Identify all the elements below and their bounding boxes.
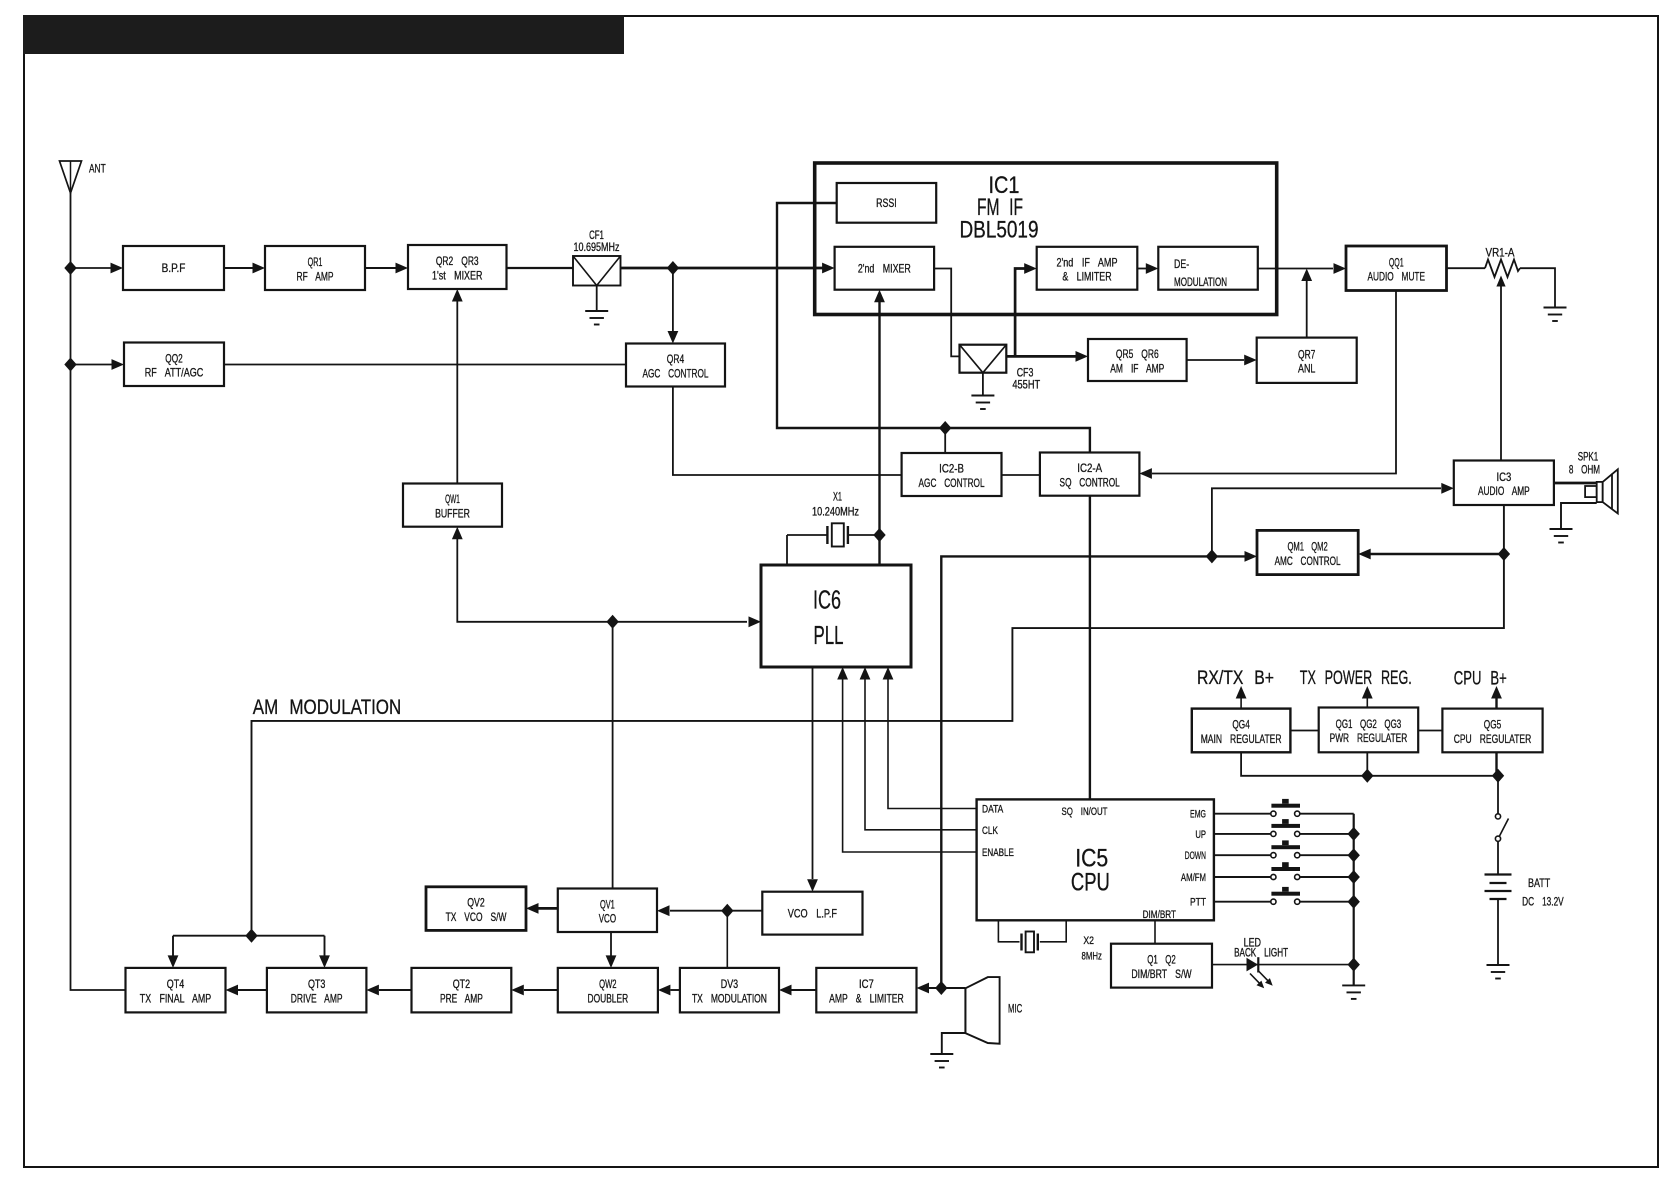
svg-text:DOWN: DOWN <box>1185 850 1206 862</box>
svg-text:DIM/BRT: DIM/BRT <box>1143 909 1177 921</box>
svg-text:QG5: QG5 <box>1484 717 1502 731</box>
svg-text:TX FINAL AMP: TX FINAL AMP <box>140 991 211 1005</box>
svg-text:2'nd IF AMP: 2'nd IF AMP <box>1057 255 1118 269</box>
svg-text:PTT: PTT <box>1190 897 1206 909</box>
svg-text:SQ IN/OUT: SQ IN/OUT <box>1061 806 1107 818</box>
svg-text:TX MODULATION: TX MODULATION <box>692 991 767 1005</box>
svg-text:DRIVE AMP: DRIVE AMP <box>291 991 343 1005</box>
svg-text:RF ATT/AGC: RF ATT/AGC <box>145 366 204 380</box>
svg-text:VCO: VCO <box>599 912 616 926</box>
svg-text:AM IF AMP: AM IF AMP <box>1110 361 1164 375</box>
svg-text:TX POWER REG.: TX POWER REG. <box>1300 667 1412 689</box>
svg-text:QT3: QT3 <box>308 977 326 991</box>
svg-text:MODULATION: MODULATION <box>1174 277 1227 289</box>
svg-text:QV2: QV2 <box>467 896 485 910</box>
svg-text:QQ2: QQ2 <box>165 351 183 365</box>
svg-text:MIC: MIC <box>1008 1003 1022 1015</box>
svg-text:DV3: DV3 <box>721 977 739 991</box>
svg-text:IC6: IC6 <box>813 585 841 615</box>
svg-text:Q1 Q2: Q1 Q2 <box>1147 953 1176 967</box>
svg-text:MAIN REGULATER: MAIN REGULATER <box>1201 732 1282 746</box>
svg-text:IC2-A: IC2-A <box>1077 461 1102 475</box>
svg-text:X2: X2 <box>1083 935 1094 947</box>
svg-text:QW1: QW1 <box>445 492 460 506</box>
svg-text:PLL: PLL <box>814 620 844 650</box>
svg-text:ANL: ANL <box>1298 362 1316 376</box>
svg-text:1'st MIXER: 1'st MIXER <box>432 268 483 282</box>
svg-text:AM/FM: AM/FM <box>1181 872 1206 884</box>
svg-text:RSSI: RSSI <box>876 196 897 210</box>
svg-text:BACK LIGHT: BACK LIGHT <box>1234 948 1288 960</box>
svg-text:UP: UP <box>1195 829 1206 841</box>
svg-text:IC3: IC3 <box>1496 470 1511 484</box>
svg-text:ENABLE: ENABLE <box>982 847 1014 859</box>
svg-text:DC 13.2V: DC 13.2V <box>1522 897 1564 909</box>
svg-text:RX/TX B+: RX/TX B+ <box>1197 667 1274 689</box>
svg-text:QW2: QW2 <box>599 977 617 991</box>
svg-text:8MHz: 8MHz <box>1082 950 1102 962</box>
svg-text:CF3: CF3 <box>1017 368 1034 380</box>
svg-text:AGC CONTROL: AGC CONTROL <box>919 476 985 490</box>
svg-text:AGC CONTROL: AGC CONTROL <box>643 366 709 380</box>
svg-text:IC7: IC7 <box>859 977 874 991</box>
svg-text:DATA: DATA <box>982 804 1004 816</box>
svg-text:455HT: 455HT <box>1012 380 1040 392</box>
svg-text:DE-: DE- <box>1174 259 1189 271</box>
svg-text:8 OHM: 8 OHM <box>1569 462 1600 476</box>
svg-text:CPU REGULATER: CPU REGULATER <box>1454 732 1532 746</box>
svg-text:DIM/BRT S/W: DIM/BRT S/W <box>1131 967 1192 981</box>
svg-text:AUDIO AMP: AUDIO AMP <box>1478 484 1530 498</box>
svg-text:CPU B+: CPU B+ <box>1454 668 1507 690</box>
svg-text:PWR REGULATER: PWR REGULATER <box>1330 731 1408 745</box>
svg-text:VCO L.P.F: VCO L.P.F <box>788 906 837 920</box>
svg-text:DBL5019: DBL5019 <box>960 217 1039 244</box>
svg-text:QR1: QR1 <box>308 255 323 269</box>
svg-text:QG4: QG4 <box>1232 717 1250 731</box>
svg-text:IC2-B: IC2-B <box>939 462 964 476</box>
svg-text:QV1: QV1 <box>600 897 615 911</box>
svg-text:TX VCO S/W: TX VCO S/W <box>446 910 507 924</box>
svg-text:EMG: EMG <box>1190 809 1206 821</box>
svg-text:ANT: ANT <box>89 164 106 176</box>
svg-text:X1: X1 <box>833 490 842 504</box>
svg-text:10.240MHz: 10.240MHz <box>812 507 859 519</box>
svg-text:SQ CONTROL: SQ CONTROL <box>1060 475 1120 489</box>
svg-text:AUDIO MUTE: AUDIO MUTE <box>1367 270 1425 284</box>
svg-text:RF AMP: RF AMP <box>297 269 334 283</box>
svg-text:AMC CONTROL: AMC CONTROL <box>1275 554 1341 568</box>
svg-text:QQ1: QQ1 <box>1389 255 1404 269</box>
svg-text:QR7: QR7 <box>1298 347 1316 361</box>
svg-text:QR5 QR6: QR5 QR6 <box>1116 347 1159 361</box>
svg-text:2'nd MIXER: 2'nd MIXER <box>858 261 911 275</box>
svg-text:10.695MHz: 10.695MHz <box>574 240 620 254</box>
svg-text:AMP & LIMITER: AMP & LIMITER <box>829 991 904 1005</box>
svg-text:PRE AMP: PRE AMP <box>440 991 483 1005</box>
svg-text:BATT: BATT <box>1528 878 1550 890</box>
svg-text:QT2: QT2 <box>453 977 471 991</box>
svg-text:AM MODULATION: AM MODULATION <box>253 696 402 719</box>
svg-text:QT4: QT4 <box>167 977 185 991</box>
svg-text:DOUBLER: DOUBLER <box>588 991 629 1005</box>
svg-text:QR2 QR3: QR2 QR3 <box>436 254 479 268</box>
svg-text:BUFFER: BUFFER <box>435 506 470 520</box>
svg-text:& LIMITER: & LIMITER <box>1062 270 1111 284</box>
svg-text:VR1-A: VR1-A <box>1486 248 1515 260</box>
svg-text:QG1 QG2 QG3: QG1 QG2 QG3 <box>1336 717 1402 731</box>
svg-text:B.P.F: B.P.F <box>162 261 186 275</box>
svg-text:QR4: QR4 <box>667 352 685 366</box>
svg-text:QM1 QM2: QM1 QM2 <box>1288 540 1328 554</box>
svg-text:CLK: CLK <box>982 825 998 837</box>
svg-text:CPU: CPU <box>1071 869 1110 897</box>
